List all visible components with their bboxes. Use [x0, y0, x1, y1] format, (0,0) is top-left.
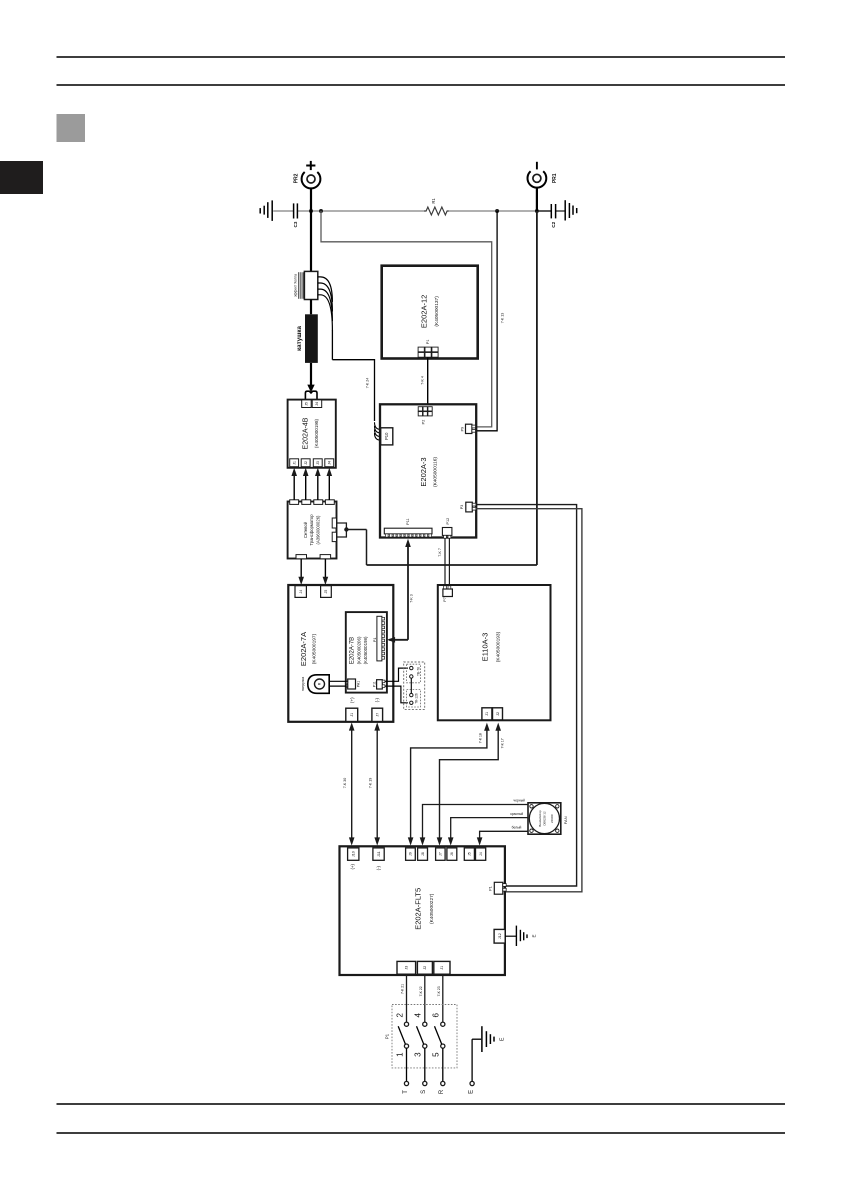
svg-text:1: 1: [395, 1052, 404, 1057]
svg-text:PR2: PR2: [294, 173, 300, 183]
svg-text:T: T: [403, 1090, 409, 1094]
svg-text:J10: J10: [351, 851, 355, 857]
svg-text:(A3960000026): (A3960000026): [316, 515, 321, 544]
svg-text:P9: P9: [461, 427, 465, 431]
svg-text:E202A-7A: E202A-7A: [299, 632, 308, 666]
svg-text:J5: J5: [468, 852, 472, 856]
svg-text:P2: P2: [421, 420, 425, 425]
svg-text:J6: J6: [450, 852, 454, 856]
svg-text:красный: красный: [510, 812, 523, 816]
svg-text:7-K 4: 7-K 4: [421, 376, 425, 385]
svg-text:7-K 13: 7-K 13: [501, 313, 505, 324]
svg-text:E: E: [468, 1090, 474, 1094]
svg-text:J1: J1: [350, 713, 354, 717]
svg-text:7-K 3: 7-K 3: [410, 594, 414, 603]
svg-text:E202A-12: E202A-12: [420, 295, 429, 328]
svg-text:P7: P7: [443, 597, 447, 601]
svg-text:C2: C2: [551, 221, 556, 227]
svg-text:J1: J1: [292, 461, 296, 465]
svg-text:катушка: катушка: [296, 326, 303, 351]
svg-text:ТВ-78: ТВ-78: [417, 667, 421, 676]
svg-text:Вентилятор: Вентилятор: [538, 810, 542, 827]
svg-text:J4: J4: [299, 590, 303, 594]
svg-text:E202A-7B: E202A-7B: [349, 637, 355, 664]
svg-text:ТК-126: ТК-126: [415, 693, 419, 704]
svg-text:Трансформатор: Трансформатор: [309, 514, 314, 546]
svg-text:(K405000227): (K405000227): [429, 893, 435, 924]
svg-text:J5: J5: [324, 590, 328, 594]
svg-text:3: 3: [414, 1052, 423, 1057]
svg-text:P1: P1: [385, 1033, 390, 1039]
svg-text:эффект Холла: эффект Холла: [293, 274, 297, 297]
svg-text:J4: J4: [479, 852, 483, 856]
svg-text:7-K 17: 7-K 17: [500, 738, 504, 748]
svg-text:Сетевой: Сетевой: [303, 521, 308, 538]
svg-text:7-K 30: 7-K 30: [343, 778, 347, 789]
svg-text:(K405000193): (K405000193): [496, 631, 502, 662]
svg-text:J3: J3: [405, 966, 409, 970]
svg-text:R1: R1: [431, 198, 436, 204]
svg-text:E202A-4B: E202A-4B: [302, 417, 309, 449]
svg-text:P1: P1: [373, 638, 377, 642]
svg-text:J3: J3: [316, 461, 320, 465]
svg-text:4: 4: [414, 1013, 423, 1018]
svg-text:J2: J2: [304, 461, 308, 465]
svg-text:E202A-FLT5: E202A-FLT5: [414, 888, 423, 930]
svg-text:J2: J2: [423, 966, 427, 970]
svg-text:J12: J12: [498, 933, 502, 939]
svg-text:P12: P12: [446, 518, 450, 525]
svg-text:7-K 19: 7-K 19: [368, 778, 372, 789]
svg-text:J2: J2: [496, 712, 500, 716]
svg-text:J7: J7: [375, 713, 379, 717]
svg-text:нагрузка: нагрузка: [301, 677, 305, 691]
svg-text:P10: P10: [384, 432, 389, 440]
svg-text:(K405000206): (K405000206): [356, 636, 361, 664]
svg-text:7-K 22: 7-K 22: [419, 986, 423, 996]
svg-text:P1: P1: [426, 339, 430, 344]
svg-text:P1: P1: [489, 886, 493, 890]
svg-text:R: R: [439, 1089, 445, 1094]
svg-text:черный: черный: [513, 799, 525, 803]
svg-text:J1: J1: [485, 712, 489, 716]
svg-text:(K405000137): (K405000137): [434, 296, 440, 327]
svg-text:R: R: [318, 682, 322, 685]
svg-text:P3: P3: [460, 505, 464, 509]
svg-text:7-K 21: 7-K 21: [400, 984, 404, 994]
svg-text:J7: J7: [439, 852, 443, 856]
svg-text:J5: J5: [305, 402, 309, 406]
svg-text:(-): (-): [376, 865, 381, 870]
svg-text:FAN: FAN: [563, 816, 568, 824]
svg-text:(K405000116): (K405000116): [432, 457, 438, 487]
svg-text:5: 5: [432, 1052, 441, 1057]
svg-text:P11: P11: [406, 518, 410, 524]
svg-text:(K405000198): (K405000198): [363, 636, 368, 664]
svg-text:PA1: PA1: [356, 681, 360, 687]
svg-text:7-K 24: 7-K 24: [365, 378, 369, 389]
svg-text:J1: J1: [440, 966, 444, 970]
svg-text:E110A-3: E110A-3: [480, 633, 489, 662]
svg-text:J4: J4: [327, 461, 331, 465]
svg-text:7-K 23: 7-K 23: [437, 986, 441, 996]
svg-text:(-): (-): [374, 697, 379, 702]
svg-text:7-K 18: 7-K 18: [478, 733, 482, 743]
svg-text:(+): (+): [349, 697, 354, 703]
svg-text:7-K 7: 7-K 7: [438, 548, 442, 557]
svg-text:(K405000198): (K405000198): [314, 418, 319, 448]
svg-text:S: S: [421, 1090, 427, 1094]
svg-text:6: 6: [432, 1013, 441, 1018]
svg-text:C3: C3: [293, 221, 298, 227]
svg-text:2: 2: [395, 1013, 404, 1018]
svg-text:J8: J8: [421, 852, 425, 856]
svg-text:(K405000197): (K405000197): [311, 633, 317, 664]
svg-text:24VDC: 24VDC: [550, 814, 554, 823]
svg-text:(+): (+): [350, 864, 355, 870]
svg-text:P11: P11: [373, 681, 377, 687]
svg-text:E202A-3: E202A-3: [419, 457, 428, 486]
svg-text:DB9238 12: DB9238 12: [542, 811, 546, 825]
svg-text:белый: белый: [512, 826, 522, 830]
svg-text:J11: J11: [377, 851, 381, 857]
svg-text:J9: J9: [409, 852, 413, 856]
svg-text:PR1: PR1: [552, 173, 558, 183]
svg-text:J4: J4: [315, 402, 319, 406]
svg-text:E: E: [531, 934, 536, 937]
